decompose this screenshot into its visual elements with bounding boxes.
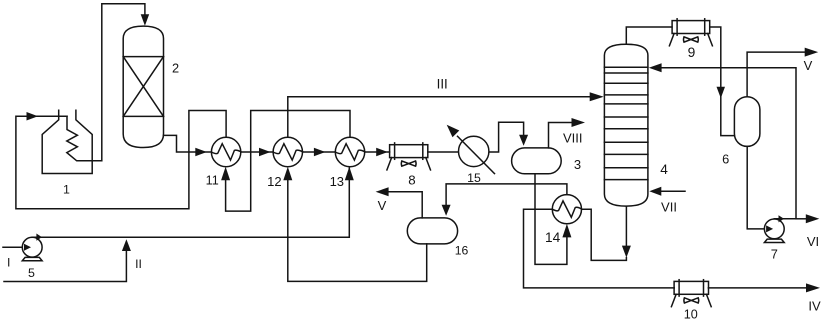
svg-text:1: 1 <box>63 183 70 197</box>
svg-text:6: 6 <box>722 152 729 167</box>
svg-text:8: 8 <box>408 172 415 187</box>
svg-text:15: 15 <box>467 171 481 185</box>
svg-text:II: II <box>135 257 142 271</box>
svg-text:4: 4 <box>660 162 668 177</box>
svg-text:13: 13 <box>330 174 344 189</box>
svg-text:5: 5 <box>28 266 35 280</box>
svg-text:10: 10 <box>684 308 698 322</box>
svg-text:I: I <box>7 256 10 270</box>
svg-text:2: 2 <box>172 61 179 76</box>
svg-text:3: 3 <box>574 157 581 172</box>
svg-text:III: III <box>437 76 448 91</box>
svg-text:VI: VI <box>807 234 819 249</box>
svg-text:11: 11 <box>206 174 219 188</box>
svg-text:VIII: VIII <box>563 131 583 146</box>
svg-text:VII: VII <box>661 200 677 215</box>
svg-text:9: 9 <box>688 45 696 60</box>
svg-text:12: 12 <box>267 174 281 189</box>
svg-text:7: 7 <box>771 246 778 261</box>
svg-text:14: 14 <box>545 230 561 245</box>
svg-text:V: V <box>378 198 387 213</box>
svg-text:IV: IV <box>808 299 821 314</box>
svg-text:V: V <box>804 58 813 73</box>
svg-text:16: 16 <box>455 243 469 257</box>
